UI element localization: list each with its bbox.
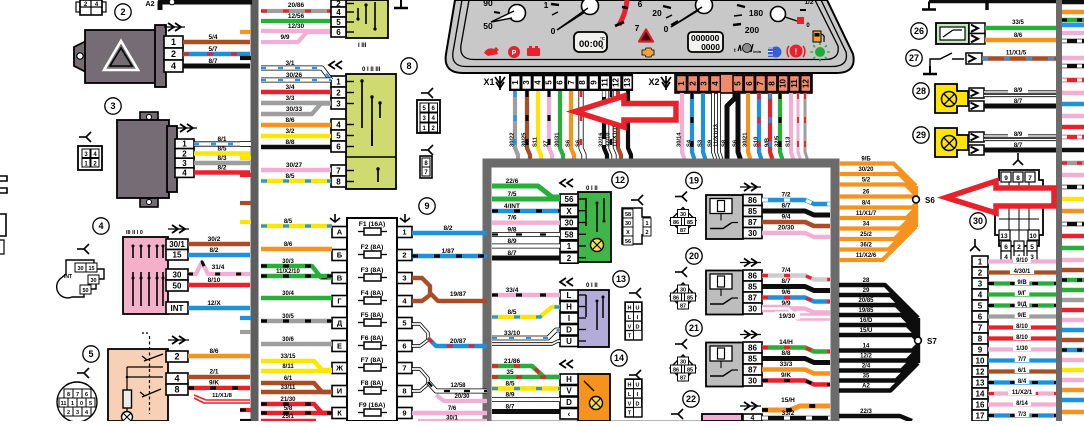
wire 7/6 pink from fuse 9 xyxy=(412,411,487,415)
svg-text:8/7: 8/7 xyxy=(781,203,790,210)
svg-text:2: 2 xyxy=(978,268,983,277)
svg-text:8: 8 xyxy=(978,334,983,343)
wire 25/2 orange bundle xyxy=(839,218,916,240)
X1 pin 12 xyxy=(611,76,621,90)
wire 8/10 from connector 31 pin 8 xyxy=(988,336,1056,340)
block 22 pin 4 xyxy=(743,414,762,421)
svg-text:22: 22 xyxy=(686,394,696,404)
connector icon for block 13 xyxy=(629,288,641,298)
svg-text:2/4: 2/4 xyxy=(862,364,871,370)
wire stub right of bus xyxy=(1062,368,1084,372)
fuel gauge needle xyxy=(671,7,702,27)
svg-text:S7: S7 xyxy=(927,337,937,346)
svg-text:9/K: 9/K xyxy=(209,380,219,387)
wire black top right xyxy=(929,0,1056,3)
wire 8/7 black from lamp 29 xyxy=(984,148,1056,153)
svg-text:21/86: 21/86 xyxy=(504,358,521,365)
block 12 pin 2 xyxy=(560,253,578,264)
wire 3/3 grey to pin 3 xyxy=(261,101,331,105)
svg-text:86: 86 xyxy=(673,295,679,301)
svg-text:H: H xyxy=(566,303,572,312)
X1 pin 3 xyxy=(522,76,532,90)
svg-text:5: 5 xyxy=(978,301,983,310)
svg-text:14: 14 xyxy=(614,353,624,363)
svg-text:8/5: 8/5 xyxy=(284,219,293,225)
block 8 pin 5 xyxy=(331,130,346,141)
svg-text:8: 8 xyxy=(174,385,179,395)
svg-text:1/30: 1/30 xyxy=(1016,346,1028,352)
wire stub right of bus xyxy=(1062,18,1084,22)
svg-text:2: 2 xyxy=(645,230,648,236)
annotation arrow left (red outline) xyxy=(575,96,676,127)
wire 12/X blue xyxy=(188,306,250,311)
svg-text:32/5: 32/5 xyxy=(775,135,781,147)
wire 8/9 white to pin 1 xyxy=(492,244,560,249)
svg-text:7: 7 xyxy=(756,81,765,86)
svg-text:2: 2 xyxy=(171,49,176,59)
wire 9/E from connector 31 pin 6 xyxy=(988,314,1056,318)
wire 11/X1/15 from X1 xyxy=(618,91,621,160)
svg-text:P: P xyxy=(512,50,517,57)
svg-text:35: 35 xyxy=(863,374,870,380)
svg-text:7: 7 xyxy=(978,323,983,332)
svg-text:29: 29 xyxy=(916,130,926,140)
block 14 pin D xyxy=(560,397,578,408)
svg-text:1/87: 1/87 xyxy=(442,248,455,255)
fuse box right pin 3 xyxy=(397,273,412,284)
wire 30/25 from X1 xyxy=(527,91,530,160)
svg-text:7/3: 7/3 xyxy=(1018,412,1027,418)
wire stub left of bus xyxy=(240,201,251,205)
svg-text:F2 (8A): F2 (8A) xyxy=(361,244,384,251)
block 8 pin 3 xyxy=(331,98,346,109)
svg-text:2/1: 2/1 xyxy=(209,369,218,376)
svg-text:8: 8 xyxy=(67,392,70,398)
wire 8/10 red xyxy=(188,283,250,288)
svg-text:31/4: 31/4 xyxy=(212,264,225,271)
wire S13 from X2 xyxy=(791,93,793,160)
svg-text:6: 6 xyxy=(1004,244,1008,251)
wire 26 orange bundle xyxy=(839,197,916,200)
svg-text:8/9: 8/9 xyxy=(1014,88,1023,94)
svg-text:90: 90 xyxy=(483,0,493,8)
relay module 3 body xyxy=(140,112,158,122)
svg-text:5: 5 xyxy=(545,80,554,85)
svg-text:86: 86 xyxy=(748,271,757,280)
wire A2 black top xyxy=(160,2,252,10)
wire 15/H orange from block 22 xyxy=(762,406,830,410)
odometer display xyxy=(688,32,723,52)
wire 9/Г from connector 31 pin 4 xyxy=(988,292,1056,296)
wire 9/8 white to pin 58 xyxy=(492,232,560,237)
svg-text:0: 0 xyxy=(551,26,556,36)
svg-text:8/9: 8/9 xyxy=(505,392,514,399)
relay 19 pin 30 xyxy=(743,228,762,239)
switch block 8 body xyxy=(346,74,396,189)
wire stub right of bus xyxy=(1062,185,1084,189)
connector 31 pin 4 xyxy=(972,289,988,300)
svg-text:25/2: 25/2 xyxy=(860,232,872,238)
svg-text:S3: S3 xyxy=(698,139,704,147)
svg-text:26: 26 xyxy=(914,26,924,36)
X1 pin 6 xyxy=(555,76,565,90)
wire stub right of bus xyxy=(1062,148,1084,152)
svg-text:S6: S6 xyxy=(733,139,739,147)
svg-text:V: V xyxy=(628,324,632,330)
svg-text:8/6: 8/6 xyxy=(209,348,218,355)
connector X1 pin row xyxy=(509,74,633,91)
svg-text:Ж: Ж xyxy=(335,364,343,373)
relay 22 fork icon xyxy=(671,409,683,419)
ignition switch pin INT xyxy=(166,302,188,314)
block 12 pin 1 xyxy=(560,241,578,252)
node S6 xyxy=(913,196,920,203)
module 3 pin 3 xyxy=(175,158,194,168)
wire S4 from X2 xyxy=(692,93,694,160)
block 13 pin D xyxy=(560,325,578,336)
svg-text:2: 2 xyxy=(402,251,406,260)
wire 9/4 from relay 19 xyxy=(762,222,830,226)
wire 8/5 yellow-blue to pin V xyxy=(492,386,560,390)
wire 9/10 from connector 31 pin 1 xyxy=(988,259,1056,263)
svg-text:6/1: 6/1 xyxy=(1018,368,1027,374)
ignition switch key contact icon xyxy=(57,260,104,298)
left edge connector icon partial 1 xyxy=(0,176,7,193)
wire 33/5 green from switch 26 xyxy=(985,26,1056,30)
svg-text:1: 1 xyxy=(645,221,648,227)
wire stub right of bus xyxy=(1062,388,1084,392)
black bundle trunk xyxy=(916,318,920,363)
warning lamp high beam xyxy=(771,47,782,58)
wire 5/8 to fuse box xyxy=(261,411,332,415)
svg-text:2: 2 xyxy=(567,254,572,263)
ignition switch 4 body xyxy=(123,237,168,314)
svg-text:F6 (8A): F6 (8A) xyxy=(361,335,384,342)
svg-text:X2: X2 xyxy=(648,77,659,87)
wire X2 aux from X2 xyxy=(798,93,800,160)
svg-text:86: 86 xyxy=(748,196,757,205)
wire 9/9 pink stub xyxy=(261,32,331,42)
wire S8 from X2 xyxy=(727,93,735,160)
svg-text:30: 30 xyxy=(625,221,631,227)
block 13 pin H xyxy=(560,302,578,313)
wire 8/7 black from lamp 28 xyxy=(984,104,1056,109)
connector 31 pin 2 xyxy=(972,267,988,278)
hazard switch triangle icon xyxy=(104,41,138,70)
wire 11/X2/6 orange bundle xyxy=(839,227,916,261)
fuse box left pin В xyxy=(332,273,347,284)
wire 9/Д from connector 31 pin 5 xyxy=(988,303,1056,307)
connector icon for block 14 xyxy=(629,370,641,380)
svg-text:85: 85 xyxy=(748,354,757,363)
svg-text:А: А xyxy=(337,228,343,237)
svg-text:8: 8 xyxy=(336,177,341,186)
svg-text:28: 28 xyxy=(916,86,926,96)
svg-text:30: 30 xyxy=(748,376,757,385)
svg-text:3/1: 3/1 xyxy=(285,60,294,67)
svg-text:11: 11 xyxy=(601,78,610,87)
relay 19 pin 87 xyxy=(743,217,762,228)
wire 14/H from relay 21 xyxy=(762,348,830,352)
svg-text:F9 (16A): F9 (16A) xyxy=(359,402,385,409)
switch 26 number xyxy=(911,23,927,39)
wire 8/5 yellow to pin H xyxy=(492,307,560,317)
svg-text:30: 30 xyxy=(680,359,686,365)
X2 pin 2 xyxy=(688,76,698,92)
wire 30/5 to fuse box xyxy=(261,319,332,323)
svg-text:0 I II III: 0 I II III xyxy=(362,67,381,73)
instrument cluster inner panel outline xyxy=(461,0,838,60)
module 3 connector bar xyxy=(167,126,177,192)
svg-text:11/X1/8: 11/X1/8 xyxy=(212,393,232,399)
wire stub right of bus xyxy=(1062,278,1084,282)
svg-text:85: 85 xyxy=(748,282,757,291)
wire stub right of bus xyxy=(1062,135,1084,139)
svg-text:26: 26 xyxy=(863,190,870,196)
svg-text:3/4: 3/4 xyxy=(285,84,294,91)
relay 20 number xyxy=(686,248,702,264)
svg-text:S13: S13 xyxy=(786,136,792,147)
svg-text:4/30/1: 4/30/1 xyxy=(1014,269,1031,275)
svg-text:34: 34 xyxy=(863,222,870,228)
wire 30/1 pink partial xyxy=(418,419,487,423)
wire A2 black bundle xyxy=(839,363,918,391)
wire 20/85 black bundle xyxy=(839,305,918,327)
wire stub right of bus xyxy=(1062,173,1084,177)
svg-text:8: 8 xyxy=(578,80,587,85)
svg-text:5/4: 5/4 xyxy=(208,34,217,41)
wire stub right of bus xyxy=(1062,246,1084,250)
light switch pin 4 xyxy=(166,373,188,384)
svg-text:0000: 0000 xyxy=(701,42,720,52)
wire 30/33 grey stub xyxy=(261,104,331,115)
ground symbol right top xyxy=(928,2,930,10)
wire 3/2 yellow to pin 5 xyxy=(261,134,331,138)
svg-text:3: 3 xyxy=(402,274,406,283)
wire stub right of bus xyxy=(1062,161,1084,165)
svg-text:32/16: 32/16 xyxy=(599,132,605,147)
wire stub right of bus xyxy=(1062,31,1084,35)
svg-text:11/X1/13: 11/X1/13 xyxy=(714,123,720,147)
connector 31 pin 13 xyxy=(972,377,988,388)
svg-text:30: 30 xyxy=(77,266,83,272)
svg-text:16: 16 xyxy=(976,400,985,409)
svg-text:11: 11 xyxy=(61,401,67,407)
svg-text:9/E: 9/E xyxy=(1017,313,1026,319)
svg-text:12/30: 12/30 xyxy=(288,23,305,30)
wire 15/U black bundle xyxy=(839,335,918,341)
module 3 pin 1 xyxy=(175,139,194,149)
svg-text:U: U xyxy=(636,306,640,312)
wire stub right of bus xyxy=(1062,102,1084,106)
wire X2 aux from X2 xyxy=(805,93,807,160)
wire 12/2 black bundle xyxy=(839,350,918,361)
wire 8/14 from connector 31 pin 16 xyxy=(988,402,1056,406)
wire 33/10 white-blue to pin D xyxy=(492,330,560,338)
svg-text:‹: ‹ xyxy=(568,410,571,419)
svg-text:D: D xyxy=(636,401,640,407)
svg-text:33/5: 33/5 xyxy=(1012,20,1024,26)
svg-text:6: 6 xyxy=(745,81,754,86)
svg-text:8/11: 8/11 xyxy=(282,364,294,370)
connector 30 number xyxy=(970,213,986,229)
ignition switch pin 50 xyxy=(166,280,188,291)
wire 14 black bundle xyxy=(839,345,918,351)
X1 pin 8 xyxy=(578,76,588,90)
wire stub left of bus xyxy=(240,141,251,147)
svg-text:7: 7 xyxy=(567,80,576,85)
wire 30/31 from X1 xyxy=(560,91,563,160)
block 14 pin ‹ xyxy=(560,409,578,420)
svg-text:7: 7 xyxy=(402,364,406,373)
svg-text:35: 35 xyxy=(506,369,514,376)
connector 30 grid body xyxy=(995,170,1043,246)
svg-text:8/4: 8/4 xyxy=(862,201,871,207)
wire 7/5 green xyxy=(492,197,560,202)
wire 12/30 pink to block 7 xyxy=(261,29,331,33)
wire stub right of bus xyxy=(1062,338,1084,342)
mounting block frame xyxy=(487,163,835,425)
indicator lamp exterior lights green xyxy=(815,47,825,57)
relay 21 pin 30 xyxy=(743,375,762,386)
wire stub left of bus xyxy=(240,30,251,34)
wire S6 from X1 xyxy=(571,91,574,160)
connector 31 pin 14 xyxy=(972,388,988,399)
svg-text:3/2: 3/2 xyxy=(285,128,294,135)
svg-text:20: 20 xyxy=(689,251,699,261)
connector icon for block 12 xyxy=(631,195,643,205)
fuse box 9 left fork symbol xyxy=(330,218,340,222)
relay 20 connector diamond icon xyxy=(670,283,696,309)
lamp 28 body xyxy=(935,84,968,113)
svg-text:9: 9 xyxy=(589,80,598,85)
main harness bus left xyxy=(251,0,259,421)
wire S10 from X2 xyxy=(759,93,761,160)
svg-text:9/Д: 9/Д xyxy=(1017,302,1027,308)
svg-text:8: 8 xyxy=(1016,175,1020,182)
wire 8/9 white thin pair from lamp 28 xyxy=(984,90,1056,93)
wire 32/10 from X1 xyxy=(611,91,614,160)
wire 30/2 brown xyxy=(188,242,250,247)
svg-text:30: 30 xyxy=(973,216,983,226)
wire 27 from X1 xyxy=(549,91,552,160)
ignition switch pin 30 xyxy=(166,269,188,280)
connector 31 pin 9 xyxy=(972,344,988,355)
svg-text:8/7: 8/7 xyxy=(507,250,516,257)
svg-text:8/5: 8/5 xyxy=(217,146,226,153)
svg-text:10: 10 xyxy=(779,79,788,88)
svg-text:0: 0 xyxy=(664,24,669,34)
wire 32/5 from X2 xyxy=(780,93,782,160)
wire 6/1 to fuse box xyxy=(261,383,332,392)
switch 26 body xyxy=(936,23,969,44)
relay 19 chevrons xyxy=(744,183,750,191)
svg-text:1/2: 1/2 xyxy=(804,0,813,6)
svg-text:10: 10 xyxy=(976,356,985,365)
svg-text:36/2: 36/2 xyxy=(860,243,872,249)
wire 20/30 pink xyxy=(436,395,487,401)
wire stub right of bus xyxy=(1062,234,1084,238)
wire 8/5 to fuse box xyxy=(261,224,332,228)
wire 30/21 from X2 xyxy=(748,93,750,160)
svg-text:21: 21 xyxy=(689,323,699,333)
light switch interior symbols xyxy=(149,336,151,414)
svg-text:8/6: 8/6 xyxy=(1014,33,1023,39)
svg-text:29: 29 xyxy=(863,288,870,294)
svg-text:33/4: 33/4 xyxy=(506,287,519,294)
gauge tachometer hub xyxy=(582,0,599,15)
svg-text:5: 5 xyxy=(336,18,341,27)
svg-text:3: 3 xyxy=(336,99,341,108)
wire 1/30 from connector 31 pin 9 xyxy=(988,347,1056,351)
svg-text:Г: Г xyxy=(337,297,342,306)
svg-text:200: 200 xyxy=(745,25,759,35)
wire 33/3 from relay 21 xyxy=(762,370,830,374)
wire stub right of bus xyxy=(1062,23,1084,27)
svg-text:12: 12 xyxy=(976,367,985,376)
wire stub right of bus xyxy=(1062,10,1084,14)
left edge connector icon partial 2 xyxy=(0,214,6,236)
svg-text:3: 3 xyxy=(700,81,709,86)
svg-text:9/6: 9/6 xyxy=(781,289,790,296)
X1 pin 13 xyxy=(623,76,633,90)
wire 4/30/1 from connector 31 pin 2 xyxy=(988,270,1056,274)
svg-text:D: D xyxy=(636,324,640,330)
wire S6 from X1 xyxy=(581,91,584,160)
relay 20 pin 86 xyxy=(743,270,762,281)
svg-text:4: 4 xyxy=(336,120,341,129)
wire 8/6 orange from switch 26 xyxy=(985,38,1056,42)
svg-text:1: 1 xyxy=(567,242,572,251)
svg-text:30/26: 30/26 xyxy=(286,72,303,79)
wire 20/86 grey-red to block 7 xyxy=(261,9,331,13)
fuse box 9 right fork symbol xyxy=(400,218,410,222)
svg-text:F4 (8A): F4 (8A) xyxy=(361,290,384,297)
hazard warning switch 2 body xyxy=(74,41,86,72)
wire 8/7 black to pin 2 xyxy=(492,256,560,261)
svg-text:33/3: 33/3 xyxy=(780,361,793,368)
wire stub right of bus xyxy=(1062,318,1084,322)
block 8 pin 8 xyxy=(331,176,346,187)
connector 31 pin 17 xyxy=(972,410,988,421)
svg-text:U: U xyxy=(566,337,572,346)
ground symbol above block 7 xyxy=(400,0,402,8)
wire stub right of bus xyxy=(1062,222,1084,226)
wire 12/58 from fuses 7-8 xyxy=(412,369,428,391)
svg-text:9/9: 9/9 xyxy=(280,34,289,41)
svg-text:3: 3 xyxy=(76,410,79,416)
fuse box left pin Ж xyxy=(332,363,347,374)
switch block 13 body xyxy=(578,290,609,347)
svg-text:13: 13 xyxy=(616,274,626,284)
svg-text:7: 7 xyxy=(635,23,640,33)
svg-text:6: 6 xyxy=(978,312,983,321)
svg-text:12/2: 12/2 xyxy=(860,354,872,360)
block 13 pin I xyxy=(560,313,578,324)
block 12 pin 58 xyxy=(560,229,578,240)
svg-text:S6: S6 xyxy=(576,139,582,147)
wire stub right of bus xyxy=(1062,268,1084,272)
svg-text:5: 5 xyxy=(1030,244,1034,251)
svg-text:56: 56 xyxy=(565,195,574,204)
main harness bus right xyxy=(1056,0,1062,421)
svg-text:8/9: 8/9 xyxy=(507,238,516,245)
connector 31 pin 6 xyxy=(972,311,988,322)
svg-text:4: 4 xyxy=(978,290,983,299)
module 3 pin 4 xyxy=(175,168,194,178)
svg-text:8/10: 8/10 xyxy=(1016,324,1028,330)
block 7 pin 5 xyxy=(331,17,346,27)
